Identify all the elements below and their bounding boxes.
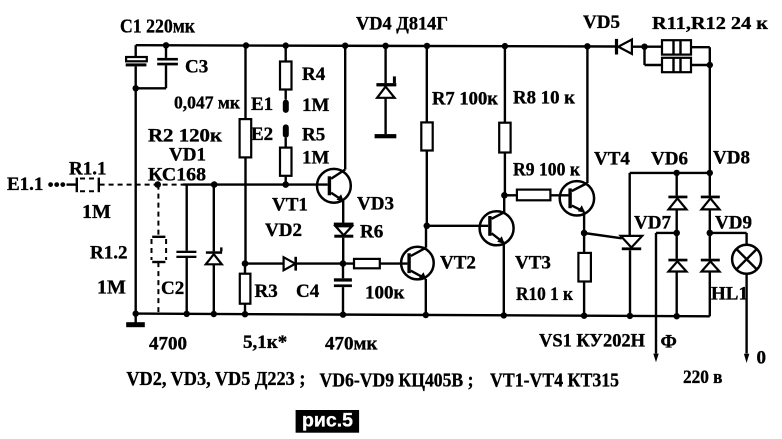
svg-text:R6: R6 — [360, 222, 383, 243]
svg-text:5,1к*: 5,1к* — [243, 332, 287, 353]
svg-text:1M: 1M — [82, 201, 111, 223]
label R3 — [255, 281, 278, 302]
resistor R3 — [240, 260, 251, 317]
svg-text:R8 10 к: R8 10 к — [513, 88, 575, 109]
diode VD5 — [615, 39, 662, 55]
wire R3 node to VD2 — [245, 262, 284, 264]
svg-text:R9 100 к: R9 100 к — [513, 160, 580, 181]
capacitor C4 — [334, 264, 352, 318]
label VD9 — [715, 213, 752, 234]
svg-text:R3: R3 — [255, 281, 278, 302]
lamp HL1 — [710, 233, 761, 363]
svg-text:1M: 1M — [97, 277, 126, 299]
svg-text:R11,R12 24 к: R11,R12 24 к — [652, 13, 769, 33]
wire left vertical to ground — [134, 88, 136, 313]
wire top supply rail — [136, 45, 616, 46]
label R6 — [360, 222, 383, 243]
label R1.2 — [90, 243, 127, 264]
svg-text:470мк: 470мк — [325, 334, 377, 355]
label E1.1 — [7, 174, 43, 195]
label VT2 — [440, 253, 476, 274]
svg-text:VT1-VT4 КТ315: VT1-VT4 КТ315 — [490, 370, 619, 392]
label R6 value — [365, 283, 405, 304]
resistor R8 — [499, 43, 510, 199]
svg-text:R5: R5 — [302, 125, 325, 146]
resistor R10 — [578, 233, 591, 319]
label R7 — [432, 89, 498, 110]
svg-text:VD2, VD3, VD5 Д223 ;: VD2, VD3, VD5 Д223 ; — [126, 368, 305, 390]
label parts list bridge — [320, 369, 474, 391]
wire dashed sensor line — [100, 184, 183, 186]
label R3 value — [243, 332, 287, 353]
svg-text:R1.2: R1.2 — [90, 243, 127, 264]
wire VT1 base line — [183, 183, 328, 185]
transistor VT4 — [560, 43, 594, 236]
label R10 — [516, 284, 573, 305]
resistor R2 — [240, 42, 252, 263]
label R9 — [513, 160, 580, 181]
label R5 — [302, 125, 325, 146]
diode VD2 — [284, 257, 354, 271]
svg-text:VT4: VT4 — [594, 149, 630, 170]
svg-text:R1.1: R1.1 — [69, 159, 106, 180]
svg-text:C1 220мк: C1 220мк — [120, 16, 195, 38]
label VD1 type — [148, 165, 206, 186]
label parts list diodes — [126, 368, 305, 390]
label C3 — [185, 56, 208, 77]
svg-text:4700: 4700 — [149, 334, 187, 355]
label VD7 — [634, 213, 671, 234]
ground — [126, 310, 145, 327]
label 220v — [683, 367, 723, 388]
svg-text:VD8: VD8 — [713, 148, 750, 169]
svg-text:220 в: 220 в — [683, 367, 723, 388]
svg-text:R2 120к: R2 120к — [148, 126, 222, 147]
svg-text:VD6: VD6 — [651, 149, 688, 170]
label R5 value — [302, 148, 330, 169]
capacitor C3 — [133, 42, 178, 91]
resistor R11 — [662, 40, 691, 54]
transistor VT1 — [317, 43, 351, 223]
label VT4 — [594, 149, 630, 170]
label parts list transistors — [490, 370, 619, 392]
resistor R12 — [645, 47, 714, 72]
label R1.1 value — [82, 201, 111, 223]
label C4 — [296, 281, 320, 302]
zener VD4 — [375, 43, 397, 139]
node E1.1 input dots — [48, 182, 65, 187]
label 0 — [757, 348, 767, 369]
label C2 — [161, 278, 184, 299]
label HL1 — [711, 284, 748, 305]
label C2 value — [149, 334, 187, 355]
svg-text:1M: 1M — [302, 148, 330, 169]
label E1 — [251, 94, 273, 115]
resistor R5 — [280, 138, 292, 188]
label VD3 — [357, 194, 394, 215]
svg-text:R10 1 к: R10 1 к — [516, 284, 573, 305]
svg-text:1M: 1M — [302, 95, 330, 116]
node junction R1.2 tap — [154, 181, 161, 188]
label R4 — [302, 64, 326, 85]
label R11 R12 — [652, 13, 769, 33]
svg-text:рис.5: рис.5 — [302, 410, 353, 432]
resistor R6 — [354, 259, 407, 268]
label VD1 — [169, 145, 206, 166]
svg-text:R4: R4 — [302, 64, 326, 85]
transistor VT2 — [401, 226, 434, 318]
svg-text:E1.1: E1.1 — [7, 174, 43, 195]
diode VD3 — [334, 223, 354, 267]
electrode E1 — [283, 100, 289, 113]
svg-text:VT3: VT3 — [515, 253, 551, 274]
svg-text:VD4 Д814Г: VD4 Д814Г — [356, 14, 448, 35]
label figure caption — [296, 410, 360, 433]
svg-text:E2: E2 — [251, 124, 273, 145]
svg-text:Ф: Ф — [661, 331, 677, 352]
svg-text:VT2: VT2 — [440, 253, 476, 274]
svg-text:0,047 мк: 0,047 мк — [174, 93, 241, 113]
resistor R1.1 (dashed) — [67, 178, 99, 193]
diode VD8 — [701, 173, 720, 236]
thyristor VS1 — [584, 173, 642, 319]
svg-text:100к: 100к — [365, 283, 405, 304]
label E2 — [251, 124, 273, 145]
wire bottom common rail — [136, 314, 710, 317]
label R1.1 — [69, 159, 106, 180]
svg-text:VD1: VD1 — [169, 145, 206, 166]
wire bridge top line — [630, 170, 713, 176]
svg-text:C2: C2 — [161, 278, 184, 299]
diode VD7 — [668, 233, 687, 320]
svg-text:E1: E1 — [251, 94, 273, 115]
svg-text:R7 100к: R7 100к — [432, 89, 498, 110]
label VD5 — [583, 12, 620, 33]
capacitor C1 — [126, 45, 147, 88]
zener VD1 — [206, 181, 223, 317]
svg-text:VD3: VD3 — [357, 194, 394, 215]
transistor VT3 — [480, 195, 514, 318]
diode VD6 — [668, 173, 687, 236]
svg-text:VD2: VD2 — [265, 220, 302, 241]
svg-text:0: 0 — [757, 348, 767, 369]
resistor R9 — [504, 190, 568, 201]
svg-text:VS1 КУ202Н: VS1 КУ202Н — [539, 331, 645, 352]
wire VT2 collector to VT3 base — [427, 225, 488, 227]
wire phase output — [653, 233, 676, 362]
label VD4 type — [356, 14, 448, 35]
svg-text:VT1: VT1 — [272, 195, 308, 216]
electrode E2 — [283, 124, 289, 137]
wire right vertical from R11 R12 down — [709, 47, 711, 173]
label phase — [661, 331, 677, 352]
svg-text:VD6-VD9 КЦ405В ;: VD6-VD9 КЦ405В ; — [320, 369, 474, 391]
label VT3 — [515, 253, 551, 274]
svg-text:VD7: VD7 — [634, 213, 671, 234]
label R4 value — [302, 95, 330, 116]
label R1.2 value — [97, 277, 126, 299]
svg-text:C3: C3 — [185, 56, 208, 77]
svg-text:HL1: HL1 — [711, 284, 748, 305]
svg-text:C4: C4 — [296, 281, 320, 302]
label VT1 — [272, 195, 308, 216]
label VD6 — [651, 149, 688, 170]
label C3 value — [174, 93, 241, 113]
svg-text:VD5: VD5 — [583, 12, 620, 33]
label VD2 — [265, 220, 302, 241]
label R8 — [513, 88, 575, 109]
label R2 — [148, 126, 222, 147]
svg-text:VD9: VD9 — [715, 213, 752, 234]
svg-text:КС168: КС168 — [148, 165, 206, 186]
resistor R7 — [421, 43, 432, 229]
resistor R1.2 (dashed) — [152, 185, 167, 314]
label VD8 — [713, 148, 750, 169]
diode VD9 — [701, 233, 720, 316]
resistor R4 — [280, 42, 292, 99]
label C4 value — [325, 334, 377, 355]
label VS1 type — [539, 331, 645, 352]
label C1 value — [120, 16, 195, 38]
capacitor C2 — [176, 185, 196, 317]
